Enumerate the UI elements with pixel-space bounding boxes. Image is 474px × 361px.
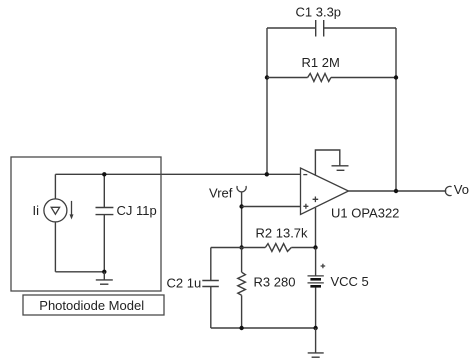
wire non-inverting input: [242, 206, 301, 208]
node junction output/feedback: [394, 189, 398, 193]
resistor R3: [238, 248, 296, 329]
wire C2 branch top horizontal: [211, 247, 242, 249]
wire op-amp V+ pin down to VCC node: [315, 208, 317, 248]
node junction CJ top: [102, 172, 106, 176]
wire R1 left lead: [267, 77, 308, 79]
node junction R3 bottom: [239, 326, 243, 330]
current source Ii: [33, 174, 74, 271]
node junction R1 left: [265, 75, 269, 79]
capacitor C1: [296, 5, 342, 37]
node junction R2 right / V+ rail: [313, 245, 317, 249]
wire op-amp V- pin to ground: [315, 150, 339, 176]
svg-text:CJ 11p: CJ 11p: [117, 203, 157, 218]
svg-text:Vref: Vref: [209, 186, 233, 201]
node junction CJ bottom: [102, 270, 106, 274]
wire right vertical of feedback loop: [395, 28, 397, 191]
wire top horizontal left of C1: [267, 27, 316, 29]
node junction VCC bottom: [313, 326, 317, 330]
wire C2 upper lead: [210, 248, 212, 281]
ground bottom rail: [308, 328, 324, 357]
wire R2 right lead: [291, 247, 315, 249]
svg-text:Vo: Vo: [454, 182, 469, 197]
svg-text:R2 13.7k: R2 13.7k: [256, 226, 309, 241]
wire R1 right lead: [331, 77, 396, 79]
wire top horizontal right of C1: [324, 27, 396, 29]
svg-text:R1 2M: R1 2M: [302, 55, 340, 70]
wire op-amp output: [349, 190, 447, 192]
ground op-amp supply: [332, 166, 349, 171]
battery VCC 5: [308, 248, 369, 329]
wire R2 left lead: [242, 247, 266, 249]
resistor R2: [256, 226, 309, 252]
svg-text:VCC 5: VCC 5: [331, 274, 369, 289]
node junction R1 right: [394, 75, 398, 79]
svg-text:R3 280: R3 280: [254, 275, 296, 290]
svg-text:U1 OPA322: U1 OPA322: [331, 206, 399, 221]
node junction Vref to +input: [239, 204, 243, 208]
resistor R1: [302, 55, 340, 82]
svg-text:C2 1u: C2 1u: [167, 276, 202, 291]
wire C2 lower lead: [210, 287, 212, 328]
wire Vref stem: [241, 192, 243, 247]
label box Photodiode Model: [23, 295, 164, 315]
svg-text:Photodiode Model: Photodiode Model: [39, 298, 144, 313]
wire feedback-loop left vertical: [266, 28, 268, 174]
capacitor C2: [167, 276, 219, 291]
node junction feedback to inverting input: [265, 172, 269, 176]
wire inverting input (photodiode to op-amp): [55, 173, 300, 175]
op-amp U1: [301, 168, 400, 221]
wire bottom rail: [211, 327, 316, 329]
ground photodiode: [96, 272, 113, 284]
photodiode model box: [11, 157, 161, 291]
svg-text:C1 3.3p: C1 3.3p: [296, 5, 342, 20]
node junction R2 left: [239, 245, 243, 249]
svg-text:Ii: Ii: [33, 203, 40, 218]
wire photodiode bottom: [55, 271, 104, 273]
capacitor CJ: [96, 174, 157, 271]
terminal Vref: [209, 186, 246, 201]
terminal Vo: [445, 182, 469, 197]
